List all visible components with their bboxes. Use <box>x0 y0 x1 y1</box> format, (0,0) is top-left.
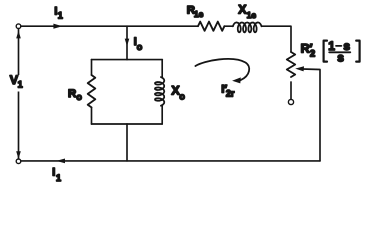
svg-text:1: 1 <box>56 173 61 183</box>
svg-text:s: s <box>343 39 350 53</box>
svg-text:o: o <box>76 92 82 102</box>
svg-text:1e: 1e <box>247 10 257 20</box>
svg-text:1: 1 <box>328 39 335 53</box>
svg-text:1e: 1e <box>194 9 204 19</box>
svg-text:1: 1 <box>58 11 63 21</box>
svg-text:o: o <box>179 91 185 101</box>
svg-text:o: o <box>137 42 143 52</box>
svg-text:I: I <box>52 167 55 179</box>
svg-text:R: R <box>68 88 76 100</box>
svg-text:1: 1 <box>18 80 23 90</box>
svg-text:2r: 2r <box>226 89 235 99</box>
svg-text:s: s <box>337 51 344 65</box>
svg-text:2: 2 <box>310 49 315 60</box>
